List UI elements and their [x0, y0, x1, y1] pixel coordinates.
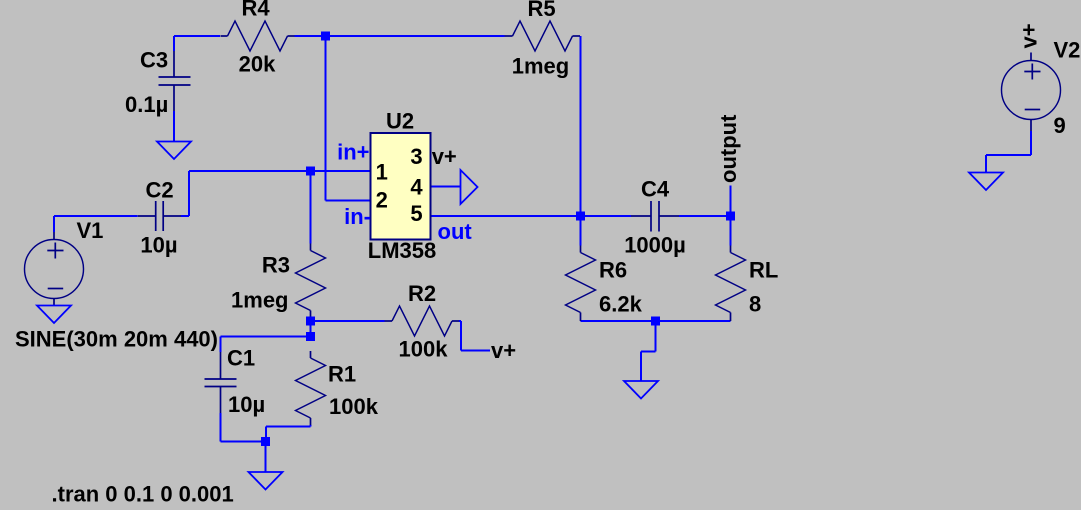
svg-text:C3: C3 [140, 48, 168, 73]
svg-text:C4: C4 [641, 176, 670, 201]
svg-text:8: 8 [749, 292, 761, 317]
svg-text:1000µ: 1000µ [624, 233, 686, 258]
svg-text:20k: 20k [239, 52, 276, 77]
svg-text:v+: v+ [1017, 23, 1042, 48]
svg-text:v+: v+ [432, 144, 457, 169]
svg-text:C1: C1 [227, 346, 255, 371]
svg-text:10µ: 10µ [140, 233, 177, 258]
svg-text:1meg: 1meg [231, 288, 288, 313]
svg-text:in+: in+ [337, 140, 369, 165]
svg-text:R2: R2 [408, 281, 436, 306]
svg-text:out: out [438, 219, 473, 244]
svg-text:3: 3 [410, 144, 422, 169]
svg-text:SINE(30m 20m 440): SINE(30m 20m 440) [15, 327, 218, 352]
svg-text:0.1µ: 0.1µ [125, 92, 168, 117]
svg-text:R3: R3 [262, 253, 290, 278]
svg-text:2: 2 [376, 188, 388, 213]
svg-text:6.2k: 6.2k [599, 292, 643, 317]
svg-text:output: output [716, 114, 741, 183]
svg-text:1meg: 1meg [512, 54, 569, 79]
svg-text:4: 4 [410, 175, 423, 200]
svg-text:U2: U2 [386, 109, 414, 134]
svg-text:R5: R5 [527, 0, 555, 21]
svg-text:C2: C2 [145, 178, 173, 203]
svg-text:5: 5 [410, 201, 422, 226]
svg-text:100k: 100k [329, 394, 379, 419]
svg-text:R4: R4 [241, 0, 270, 21]
svg-text:1: 1 [376, 160, 388, 185]
svg-text:.tran 0 0.1 0 0.001: .tran 0 0.1 0 0.001 [52, 482, 234, 506]
svg-text:v+: v+ [491, 338, 516, 363]
svg-text:100k: 100k [399, 337, 449, 362]
svg-text:V2: V2 [1054, 38, 1081, 63]
svg-text:LM358: LM358 [368, 238, 436, 263]
svg-text:10µ: 10µ [228, 392, 265, 417]
svg-text:in-: in- [344, 204, 371, 229]
svg-text:R1: R1 [328, 362, 356, 387]
svg-text:V1: V1 [77, 218, 104, 243]
svg-text:RL: RL [749, 258, 778, 283]
svg-text:R6: R6 [599, 258, 627, 283]
svg-text:9: 9 [1054, 113, 1066, 138]
